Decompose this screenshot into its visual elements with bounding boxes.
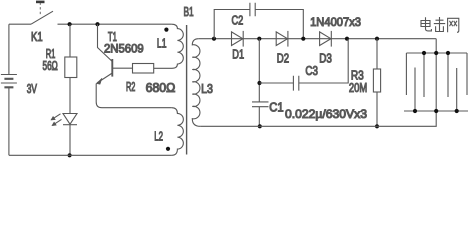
node D3/C3 junction (345, 37, 349, 41)
svg-text:D2: D2 (277, 51, 289, 65)
svg-text:R2: R2 (126, 80, 135, 94)
svg-text:L2: L2 (154, 130, 163, 144)
winding L2 (172, 108, 184, 156)
wire top rail left (9, 23, 31, 25)
svg-text:1N4007x3: 1N4007x3 (310, 15, 361, 29)
wire bottom rail left (9, 154, 172, 156)
node bottom bus tooth 2 (455, 109, 459, 113)
node riser/C3 junction (257, 81, 261, 85)
svg-text:K1: K1 (31, 30, 43, 44)
svg-text:0.022µ/630Vx3: 0.022µ/630Vx3 (285, 107, 367, 121)
node rail/R3 (375, 37, 379, 41)
capacitor C1 (252, 102, 269, 107)
svg-text:D1: D1 (232, 48, 244, 62)
node rail/collector (95, 22, 99, 26)
resistor R3 (373, 69, 380, 92)
wire C1 bottom (258, 107, 260, 127)
node top bus feed (434, 51, 438, 55)
capacitor C3 (293, 76, 298, 91)
diode D2 (276, 31, 288, 47)
svg-text:L3: L3 (201, 82, 213, 96)
wire bottom right rail (200, 111, 436, 126)
node D2/C2/D3 junction (301, 37, 305, 41)
switch K1 (31, 2, 171, 24)
transformer core B1 (186, 25, 188, 155)
LED VD (51, 114, 77, 126)
winding L3 (192, 39, 200, 127)
node D1/D2/C1 junction (257, 37, 261, 41)
svg-text:C3: C3 (305, 64, 318, 78)
wire R3 top (376, 39, 378, 69)
svg-text:B1: B1 (184, 5, 194, 19)
diode D1 (232, 31, 244, 47)
node rail/R1 (68, 22, 72, 26)
wire (69, 78, 71, 114)
label ji (strike) glyph (434, 17, 445, 32)
svg-text:D3: D3 (319, 52, 332, 66)
node R3/bottom rail (375, 124, 379, 128)
svg-text:L1: L1 (157, 36, 167, 50)
diode D3 (320, 31, 332, 47)
node L1 phase dot (164, 28, 168, 32)
electric shock net top comb (406, 53, 467, 111)
node L2 phase dot (166, 147, 170, 151)
wire C3 branch (260, 39, 349, 83)
wire C1 riser (258, 39, 260, 102)
node bottom bus feed (434, 109, 438, 113)
svg-text:20M: 20M (349, 81, 367, 95)
wire (69, 125, 71, 156)
svg-text:56Ω: 56Ω (43, 59, 58, 73)
label dian (electric) glyph (421, 17, 431, 31)
wire C2 top branch (214, 10, 303, 39)
node top bus tooth 1 (422, 51, 426, 55)
wire R1 branch (69, 24, 71, 57)
capacitor C2 (250, 3, 255, 16)
resistor R2 (133, 64, 154, 74)
electric shock net bottom comb (404, 68, 468, 112)
svg-text:C2: C2 (232, 14, 244, 28)
winding L1 (171, 24, 183, 68)
wire net feed top (435, 39, 437, 53)
node bottom rail/LED (68, 153, 72, 157)
svg-text:2N5609: 2N5609 (104, 42, 144, 56)
svg-text:680Ω: 680Ω (146, 81, 176, 95)
node L3/D1/C2 junction (212, 37, 216, 41)
wire R2 to L1 (154, 67, 172, 69)
wire R3 bottom (376, 92, 378, 126)
node bottom bus tooth 1 (413, 109, 417, 113)
node top bus tooth 2 (446, 51, 450, 55)
svg-text:3V: 3V (27, 82, 38, 96)
resistor R1 (65, 57, 77, 78)
node C1/bottom rail (258, 124, 262, 128)
battery B 3V (1, 24, 17, 155)
label wang (net) glyph (448, 18, 459, 32)
svg-text:C1: C1 (269, 100, 283, 114)
transistor T1 2N5609 (96, 24, 171, 108)
wire main mid rail (199, 38, 436, 40)
